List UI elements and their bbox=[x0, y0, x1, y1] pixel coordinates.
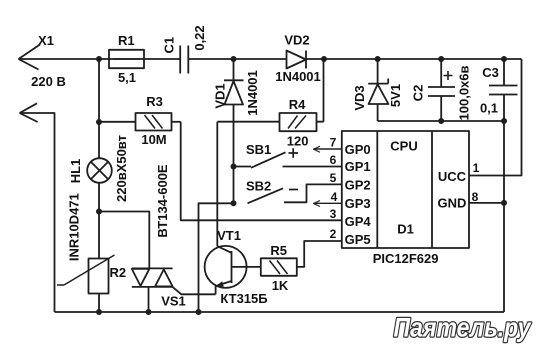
wire UCC feed from top rail bbox=[469, 59, 522, 176]
junction ground bus / C3 riser bbox=[501, 118, 507, 124]
junction top rail / R4 branch bbox=[321, 56, 327, 62]
junction bottom rail / button common bbox=[196, 309, 202, 315]
polarity minus bbox=[289, 189, 298, 191]
junction top rail / C2 bbox=[438, 56, 444, 62]
svg-text:R4: R4 bbox=[289, 97, 306, 112]
svg-text:1N4001: 1N4001 bbox=[245, 70, 260, 116]
svg-text:GP0: GP0 bbox=[345, 142, 371, 157]
svg-text:ВТ134-600Е: ВТ134-600Е bbox=[155, 164, 170, 238]
svg-text:220вХ50вт: 220вХ50вт bbox=[114, 135, 129, 202]
junction ground bus / C2 bbox=[438, 118, 444, 124]
svg-text:10M: 10M bbox=[141, 132, 166, 147]
svg-text:GP3: GP3 bbox=[345, 196, 371, 211]
IC D1 PIC12F629 bbox=[342, 131, 469, 248]
svg-text:C2: C2 bbox=[411, 85, 426, 102]
resistor R5 bbox=[261, 241, 342, 276]
svg-text:D1: D1 bbox=[397, 222, 414, 237]
svg-text:7: 7 bbox=[330, 136, 337, 150]
svg-text:SB1: SB1 bbox=[246, 142, 271, 157]
junction bottom rail / R2 bbox=[96, 309, 102, 315]
junction lamp branch / triac branch bbox=[96, 209, 102, 215]
svg-text:VD2: VD2 bbox=[284, 33, 309, 48]
triac VS1 bbox=[132, 268, 216, 312]
svg-text:5,1: 5,1 bbox=[118, 70, 136, 85]
svg-text:8: 8 bbox=[472, 190, 479, 204]
pin 7 stub with arrow (GP0) bbox=[314, 146, 342, 152]
svg-text:VD1: VD1 bbox=[213, 83, 228, 108]
svg-text:HL1: HL1 bbox=[68, 159, 83, 184]
svg-text:R5: R5 bbox=[270, 243, 287, 258]
zener diode VD3 bbox=[368, 59, 388, 121]
svg-text:0,1: 0,1 bbox=[480, 101, 498, 116]
svg-text:GP4: GP4 bbox=[345, 214, 372, 229]
junction bottom rail / VS1 bbox=[146, 309, 152, 315]
resistor R4 bbox=[217, 59, 323, 131]
svg-text:VD3: VD3 bbox=[352, 85, 367, 110]
svg-text:CPU: CPU bbox=[390, 139, 417, 154]
junction GND / ground riser bbox=[501, 200, 507, 206]
svg-text:INR10D471: INR10D471 bbox=[67, 193, 82, 261]
button SB2 bbox=[248, 184, 342, 203]
svg-text:VT1: VT1 bbox=[217, 228, 241, 243]
wire mains top rail bbox=[19, 58, 522, 60]
junction VD1 / SB1 bbox=[231, 164, 237, 170]
transistor VT1 bbox=[205, 246, 261, 294]
capacitor C2 bbox=[428, 59, 455, 121]
svg-text:КТ315Б: КТ315Б bbox=[220, 291, 267, 306]
svg-text:X1: X1 bbox=[38, 33, 54, 48]
svg-text:5V1: 5V1 bbox=[388, 84, 403, 107]
wire ground riser right bbox=[503, 121, 505, 312]
wire psu ground bus bbox=[378, 120, 504, 122]
wire button common to bottom rail bbox=[199, 203, 234, 312]
diode VD1 bbox=[224, 59, 244, 203]
svg-text:2: 2 bbox=[330, 227, 337, 241]
junction VD1 / SB2 bbox=[231, 200, 237, 206]
junction top rail / VD3 bbox=[375, 56, 381, 62]
junction lamp branch / R3 bbox=[96, 119, 102, 125]
svg-text:R2: R2 bbox=[109, 265, 126, 280]
svg-text:4: 4 bbox=[331, 190, 338, 204]
wire lamp branch vertical bbox=[98, 59, 100, 312]
svg-text:5: 5 bbox=[330, 171, 337, 185]
wire bottom rail bbox=[55, 311, 505, 313]
svg-text:120: 120 bbox=[287, 133, 309, 148]
lamp HL1 bbox=[87, 158, 112, 183]
resistor R3 bbox=[99, 113, 181, 131]
capacitor C3 bbox=[489, 59, 518, 121]
capacitor C1 bbox=[180, 46, 188, 74]
varistor R2 bbox=[57, 255, 115, 294]
svg-text:UCC: UCC bbox=[438, 169, 467, 184]
junction top rail / C3 bbox=[501, 56, 507, 62]
svg-text:3: 3 bbox=[330, 207, 337, 221]
svg-text:GND: GND bbox=[438, 196, 467, 211]
svg-text:R3: R3 bbox=[146, 94, 163, 109]
wire to triac VS1 anode bbox=[99, 212, 149, 269]
svg-text:C3: C3 bbox=[482, 65, 499, 80]
junction top rail / VD1 bbox=[231, 56, 237, 62]
svg-text:100,0х6в: 100,0х6в bbox=[456, 66, 471, 121]
svg-text:220 В: 220 В bbox=[31, 74, 66, 89]
svg-text:SB2: SB2 bbox=[246, 178, 271, 193]
wire left mains rail bbox=[20, 113, 55, 312]
button SB1 bbox=[234, 152, 342, 168]
connector X1 arrow top prong bbox=[19, 45, 41, 70]
svg-text:C1: C1 bbox=[161, 37, 176, 54]
connector X1 arrow bottom prong bbox=[20, 103, 38, 122]
svg-text:1N4001: 1N4001 bbox=[275, 69, 321, 84]
svg-text:0,22: 0,22 bbox=[192, 25, 207, 50]
svg-text:1K: 1K bbox=[272, 278, 289, 293]
junction top rail / lamp branch bbox=[96, 56, 102, 62]
svg-text:Паятель.ру: Паятель.ру bbox=[394, 313, 533, 343]
pin 4 stub with arrow (GP3) bbox=[314, 201, 342, 207]
wire R4 to VT1 collector bbox=[216, 122, 218, 247]
resistor R1 bbox=[109, 50, 144, 68]
svg-text:6: 6 bbox=[330, 153, 337, 167]
polarity plus bbox=[289, 148, 299, 157]
svg-text:GP5: GP5 bbox=[345, 232, 371, 247]
wire GND pin to ground riser bbox=[469, 202, 504, 204]
wire R3 to GP4 bbox=[181, 122, 342, 221]
svg-text:VS1: VS1 bbox=[161, 294, 186, 309]
svg-text:GP1: GP1 bbox=[345, 159, 371, 174]
svg-text:GP2: GP2 bbox=[345, 178, 371, 193]
svg-text:R1: R1 bbox=[118, 33, 135, 48]
svg-text:PIC12F629: PIC12F629 bbox=[373, 251, 439, 266]
svg-text:1: 1 bbox=[473, 161, 480, 175]
diode VD2 bbox=[287, 51, 307, 69]
